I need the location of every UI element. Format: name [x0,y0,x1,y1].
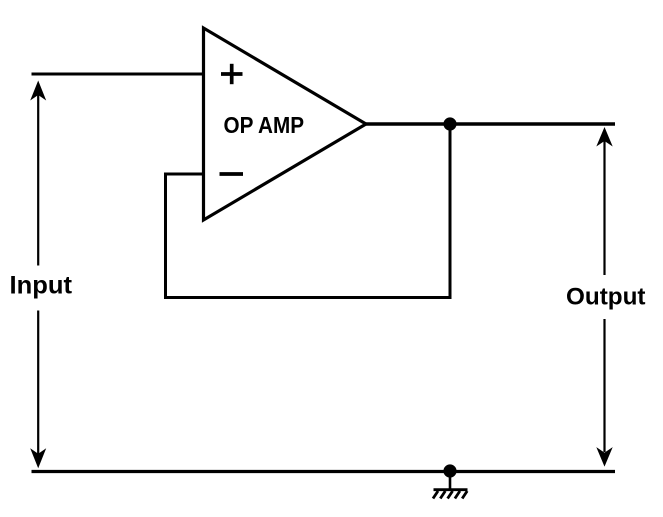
wire feedback to inverting input [164,173,204,176]
op-amp U1 minus marker (inverting input) [220,172,244,176]
wire op-amp output to right [366,122,615,125]
ground [433,471,468,499]
node output junction [443,117,456,130]
op-amp U1 [204,28,367,220]
wire feedback bottom horizontal [164,296,452,299]
svg-text:Output: Output [566,284,646,310]
svg-text:OP AMP: OP AMP [224,112,305,138]
Input measurement arrow (double-headed) [30,81,46,469]
wire feedback left vertical [164,174,167,299]
wire input to op-amp non-inverting input [32,73,204,76]
wire ground rail [32,470,616,473]
Output measurement arrow (double-headed) [596,127,612,467]
svg-text:Input: Input [10,272,73,300]
op-amp U1 plus marker (non-inverting input) [221,64,243,84]
node ground junction [443,464,456,477]
wire feedback vertical from output node [449,124,452,297]
